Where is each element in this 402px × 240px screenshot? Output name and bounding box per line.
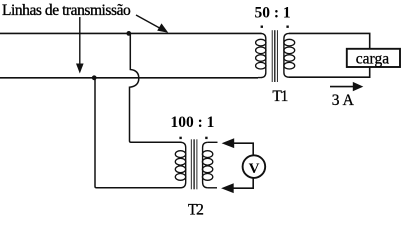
svg-text:carga: carga bbox=[356, 50, 389, 67]
T1 primary winding outline bbox=[258, 33, 266, 77]
arrow (vertical) pointing to line 2 bbox=[76, 17, 84, 74]
svg-text:V: V bbox=[249, 161, 260, 177]
svg-text:T2: T2 bbox=[188, 201, 203, 216]
T1 secondary winding loops bbox=[284, 39, 295, 69]
T2 polarity dot (secondary) bbox=[205, 137, 207, 139]
T2 polarity dot (primary) bbox=[179, 137, 181, 139]
wire: tap from node on line 2 down to T2 primary bottom bbox=[95, 78, 182, 188]
voltmeter branch bottom wire with arrowhead pointing left bbox=[221, 178, 253, 193]
T2 primary winding outline bbox=[180, 142, 185, 188]
T2 secondary terminal stubs bbox=[208, 141, 218, 143]
svg-text:100 : 1: 100 : 1 bbox=[171, 114, 215, 131]
transformer T2 bbox=[171, 114, 218, 218]
T2 secondary winding outline bbox=[203, 142, 208, 188]
current arrow 3 A bbox=[330, 82, 363, 109]
wire: transmission line 1 (top) bbox=[0, 32, 262, 34]
voltmeter V bbox=[243, 155, 266, 178]
wire: secondary loop bottom (T1 to load) bbox=[289, 67, 370, 77]
node: junction on line 2 bbox=[92, 75, 97, 80]
wire: tap from node on line 1, hop over line 2, down to T2 primary top bbox=[130, 33, 182, 142]
T2 core lines bbox=[191, 139, 197, 189]
arrow (slanted) pointing to line 1 bbox=[136, 15, 168, 33]
voltmeter branch top wire with arrowhead pointing left bbox=[222, 138, 254, 155]
load box "carga" bbox=[347, 49, 400, 67]
wire: secondary loop top (T1 to load) bbox=[289, 33, 370, 48]
T1 core lines bbox=[272, 30, 277, 82]
svg-text:3 A: 3 A bbox=[332, 92, 355, 109]
wire: transmission line 2 (bottom) bbox=[0, 77, 258, 79]
node: junction on line 1 bbox=[126, 31, 131, 36]
T1 polarity dot (secondary) bbox=[286, 26, 288, 28]
svg-text:Linhas de transmissão: Linhas de transmissão bbox=[2, 2, 131, 19]
svg-text:50 : 1: 50 : 1 bbox=[255, 4, 291, 21]
T1 secondary winding outline bbox=[284, 33, 289, 77]
T2 primary winding loops bbox=[175, 151, 185, 181]
T1 primary winding loops bbox=[256, 39, 266, 69]
T1 polarity dot (primary) bbox=[261, 26, 263, 28]
svg-text:T1: T1 bbox=[272, 88, 287, 105]
T2 secondary winding loops bbox=[202, 151, 212, 181]
transformer T1 bbox=[255, 4, 295, 105]
